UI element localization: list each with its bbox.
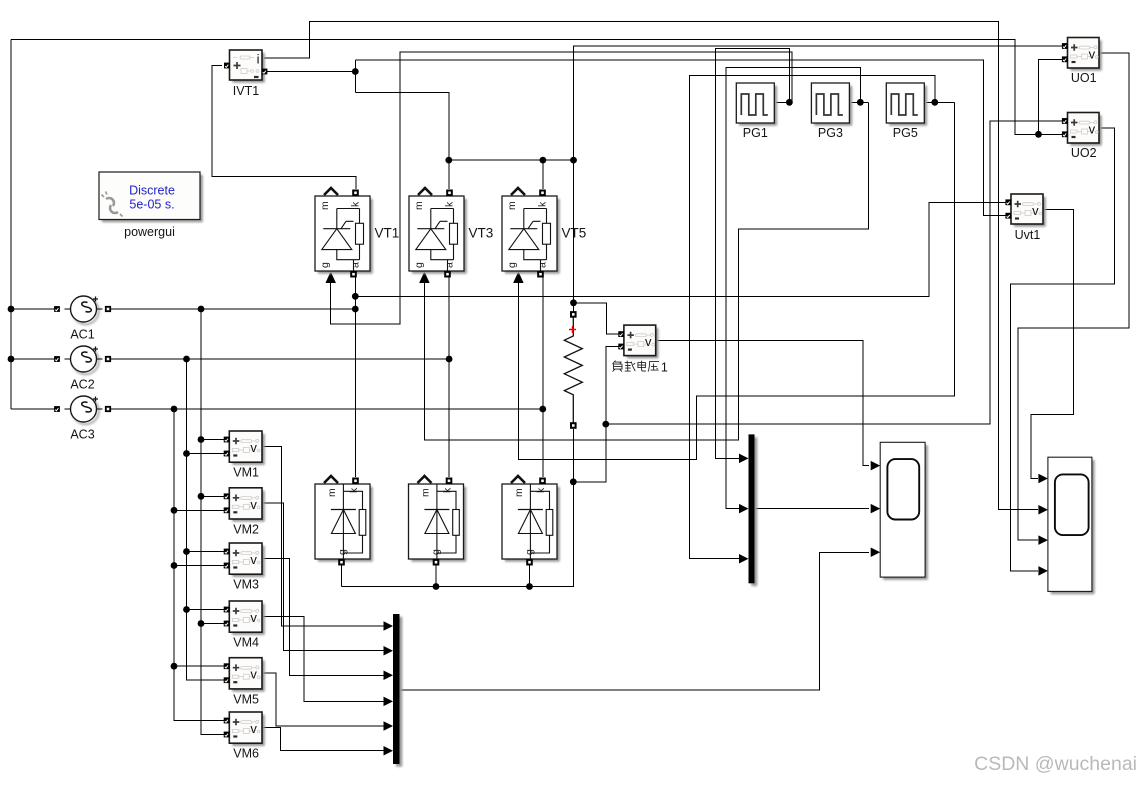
svg-text:g: g	[337, 549, 349, 555]
svg-text:5e-05 s.: 5e-05 s.	[129, 198, 174, 212]
mux2 input arrow 5	[384, 721, 394, 731]
wire phase C tap VM5+	[174, 665, 224, 667]
wire VM5 to Mux2	[262, 673, 385, 726]
scope1 input arrow 3	[871, 548, 881, 558]
svg-text:v: v	[250, 721, 257, 736]
node cath-VT3k	[445, 157, 452, 164]
scope1 input arrow 2	[871, 504, 881, 513]
node neutral-AC2	[8, 356, 15, 363]
wire phase C tap VM3-	[174, 565, 224, 567]
svg-text:m: m	[413, 201, 425, 210]
voltage measurement VM3	[224, 543, 265, 577]
wire phase A vertical VT1.a to VT4.k	[354, 278, 356, 478]
svg-text:VM6: VM6	[233, 747, 259, 761]
wire anode stub VT4	[341, 563, 343, 587]
wire cathode bus VT5.k drop	[542, 160, 544, 189]
node cath-VT5k	[540, 157, 547, 164]
wire cathode bus lower run	[355, 92, 449, 160]
mux1 input arrow 1	[739, 454, 749, 464]
wire cathode bus to Uvt1-	[355, 60, 1007, 216]
scope2 input arrow 4	[1038, 566, 1048, 576]
voltage measurement VM5	[224, 658, 265, 692]
node load-minus	[570, 478, 577, 485]
wire cathode to UO1+	[574, 46, 1066, 160]
wire IVT1 i signal to Scope2	[264, 22, 1038, 510]
wire phase A tap VM1+	[201, 439, 224, 441]
svg-text:1: 1	[661, 360, 668, 374]
wire PG1 to VT1 gate	[331, 52, 792, 324]
svg-text:v: v	[645, 334, 652, 349]
voltage measurement UO2	[1062, 113, 1102, 146]
svg-text:Uvt1: Uvt1	[1015, 228, 1041, 242]
node C-VM5	[171, 663, 178, 670]
node A-VM1	[198, 436, 205, 443]
thyristor VT3	[409, 196, 467, 274]
node A-VT1a-right	[352, 293, 359, 300]
node neutral-AC1	[8, 306, 15, 313]
mux Mux2	[393, 614, 402, 767]
thyristor VT4	[315, 484, 373, 562]
wire load voltage + tap	[574, 303, 622, 334]
thyristor VT5	[502, 196, 560, 274]
svg-text:VT1: VT1	[375, 226, 400, 241]
wire VM4 to Mux2	[262, 616, 385, 701]
load resistor + port	[570, 311, 577, 318]
a port VT5	[537, 271, 544, 278]
wire phase C tap VM2-	[174, 509, 224, 511]
wire PG5 to VT5 gate	[518, 102, 954, 459]
svg-text:VM3: VM3	[233, 578, 259, 592]
gate arrow VT3	[419, 272, 430, 284]
svg-text:g: g	[524, 549, 536, 555]
svg-text:m: m	[506, 201, 518, 210]
wire VM6 to Mux2	[262, 727, 385, 750]
mux2 input arrow 4	[384, 697, 394, 707]
unconnected m-port marker VT5	[511, 188, 525, 195]
g port VT6	[433, 559, 440, 566]
scope Scope1	[880, 442, 928, 580]
wire VM1 to Mux2	[262, 446, 385, 626]
svg-text:a: a	[444, 262, 456, 268]
AC voltage source AC1	[54, 296, 111, 324]
gate arrow VT1	[325, 272, 336, 284]
node B-VM4	[183, 606, 190, 613]
scope2 input arrow 2	[1038, 505, 1048, 515]
svg-text:VM1: VM1	[233, 466, 259, 480]
node A-busdrop	[198, 306, 205, 313]
node cath-load	[570, 157, 577, 164]
node PG5-out	[931, 99, 938, 106]
svg-text:m: m	[513, 488, 525, 497]
wire phase B tap VM3+	[187, 551, 225, 553]
unconnected m-port marker VT4	[324, 476, 338, 483]
thyristor VT6	[409, 484, 467, 562]
node B-VM1	[183, 450, 190, 457]
thyristor VT2	[502, 484, 560, 562]
svg-text:g: g	[430, 549, 442, 555]
k port VT3	[446, 190, 453, 197]
node B-VM3	[183, 548, 190, 555]
mux1 input arrow 3	[739, 554, 749, 564]
unconnected m-port marker VT1	[324, 188, 338, 195]
mux2 input arrow 2	[384, 646, 394, 656]
wire load voltage - riser	[606, 347, 621, 425]
node A-VM4	[198, 620, 205, 627]
svg-text:PG1: PG1	[743, 126, 768, 140]
svg-text:k: k	[350, 201, 362, 207]
wire PG1 to Mux1 input1	[716, 49, 790, 459]
svg-text:PG5: PG5	[893, 126, 918, 140]
wire Mux2 output to Scope1	[400, 552, 870, 690]
pulse generator PG1	[736, 83, 777, 126]
node C-VT5a	[539, 406, 546, 413]
wire neutral to AC2 left	[11, 358, 57, 360]
mux2 input arrow 1	[384, 621, 394, 631]
voltage measurement UO1	[1062, 38, 1102, 71]
load resistor RL	[564, 314, 582, 425]
wire phase C from AC3	[108, 408, 543, 410]
wire IVT1 input from VT1 cathode	[212, 66, 356, 190]
wire load- down	[572, 429, 574, 482]
wire phase C bus down to VM column	[174, 409, 224, 721]
AC voltage source AC2	[54, 346, 111, 374]
svg-text:VM5: VM5	[233, 692, 259, 706]
svg-text:Discrete: Discrete	[129, 184, 175, 198]
svg-text:i: i	[257, 52, 260, 67]
svg-text:g: g	[413, 262, 425, 268]
wire phase B tap VM4+	[187, 609, 225, 611]
node C-VM2	[171, 507, 178, 514]
scope Scope2	[1048, 457, 1095, 594]
wire PG3 output stub	[851, 101, 869, 103]
load resistor + polarity mark	[569, 326, 576, 333]
k port VT4	[352, 478, 359, 485]
wire phase B vertical VT3.a to VT6.k	[448, 278, 450, 478]
svg-text:k: k	[535, 487, 547, 493]
wire load voltage output to Scope1	[656, 340, 869, 465]
svg-text:CSDN @wuchenai: CSDN @wuchenai	[974, 753, 1137, 775]
svg-text:v: v	[250, 497, 257, 512]
svg-text:v: v	[250, 552, 257, 567]
svg-text:v: v	[250, 610, 257, 625]
wire phase A tap VM4-	[201, 623, 224, 625]
svg-text:k: k	[442, 487, 454, 493]
voltage measurement Uvt1	[1005, 194, 1045, 227]
scope2 input arrow 1	[1038, 474, 1048, 484]
voltage measurement VM1	[224, 431, 265, 465]
svg-text:k: k	[537, 201, 549, 207]
svg-text:VM4: VM4	[233, 636, 259, 650]
wire UO2 output to Scope2	[1010, 128, 1114, 571]
k port VT6	[446, 478, 453, 485]
svg-text:m: m	[326, 488, 338, 497]
voltage measurement VM2	[224, 488, 265, 522]
svg-text:v: v	[250, 440, 257, 455]
powergui block	[99, 172, 203, 222]
wire phase B tap VM1-	[187, 453, 225, 455]
wire PG5 output stub	[926, 101, 955, 103]
pulse generator PG5	[886, 83, 927, 126]
svg-text:a: a	[537, 262, 549, 268]
wire cathode bus VT3.k drop	[448, 160, 450, 189]
wire IVT1 output stub	[266, 71, 355, 73]
wire cathode down to load+	[573, 160, 575, 303]
node C-busdrop	[171, 406, 178, 413]
svg-text:m: m	[420, 488, 432, 497]
mux Mux1	[749, 434, 758, 586]
wire phase A tap VM2+	[201, 495, 224, 497]
unconnected m-port marker VT6	[418, 476, 432, 483]
node anode-VT2	[526, 583, 533, 590]
node B-VT3a	[446, 356, 453, 363]
wire cathode bus vertical at IVT1 node	[354, 60, 356, 92]
wire Uvt1 output to Scope2	[1031, 209, 1074, 478]
k port VT1	[352, 190, 359, 197]
wire phase B bus down to VM column	[187, 359, 225, 680]
node A-VT1a	[352, 306, 359, 313]
mux1 input arrow 2	[739, 504, 749, 513]
wire PG3 to VT3 gate	[424, 102, 868, 440]
svg-text:AC3: AC3	[70, 428, 94, 442]
node PG1-out	[786, 99, 793, 106]
svg-text:UO2: UO2	[1071, 146, 1097, 160]
node load-top	[570, 299, 577, 306]
node A-VM2	[198, 493, 205, 500]
voltage measurement VM4	[224, 601, 265, 635]
svg-text:k: k	[444, 201, 456, 207]
voltage measurement VM6	[224, 712, 265, 746]
node UO-minus	[1035, 131, 1042, 138]
svg-text:PG3: PG3	[818, 126, 843, 140]
wire UO1 output to Scope2	[1018, 53, 1129, 540]
node C-VM3	[171, 562, 178, 569]
mux2 input arrow 3	[384, 671, 394, 681]
scope2 input arrow 3	[1038, 535, 1048, 545]
thyristor VT1	[315, 196, 373, 274]
pulse generator PG3	[811, 83, 852, 126]
svg-text:AC2: AC2	[70, 378, 94, 392]
wire phase A bus down to VM column	[201, 309, 224, 735]
voltage measurement load voltage meter	[618, 325, 658, 358]
wire phase C vertical VT5.a to VT2.k	[542, 278, 544, 478]
unconnected m-port marker VT3	[418, 188, 432, 195]
node PG3-out	[857, 99, 864, 106]
wire PG5 to Mux1 input3	[690, 76, 935, 559]
wire neutral bus left vertical	[10, 40, 12, 410]
scope1 input arrow 1	[871, 461, 881, 471]
current measurement IVT1	[224, 50, 267, 83]
wire load+ stub	[573, 303, 575, 315]
node anode-VT6	[433, 583, 440, 590]
svg-text:v: v	[1032, 203, 1039, 218]
unconnected m-port marker VT2	[511, 476, 525, 483]
load resistor - port	[570, 422, 577, 429]
wire phase B from AC2	[108, 358, 449, 360]
wire anode bus	[342, 482, 574, 587]
wire phase A from AC1	[108, 308, 355, 310]
svg-text:VT5: VT5	[562, 226, 587, 241]
wire VM2 to Mux2	[262, 503, 385, 651]
svg-text:g: g	[506, 262, 518, 268]
wire cathode bus horizontal	[449, 159, 574, 161]
gate arrow VT5	[513, 272, 524, 284]
mux2 input arrow 6	[384, 746, 394, 756]
g port VT2	[526, 559, 533, 566]
svg-text:UO1: UO1	[1071, 71, 1097, 85]
svg-text:AC1: AC1	[70, 328, 94, 342]
a port VT3	[444, 271, 451, 278]
wire anode stub VT2	[529, 563, 531, 587]
svg-text:m: m	[319, 201, 331, 210]
wire PG3 to Mux1 input2	[726, 67, 860, 508]
AC voltage source AC3	[54, 396, 111, 424]
k port VT5	[539, 190, 546, 197]
g port VT4	[338, 559, 345, 566]
svg-text:a: a	[350, 262, 362, 268]
wire neutral to AC3 left	[11, 408, 57, 410]
svg-text:powergui: powergui	[124, 225, 175, 239]
svg-text:v: v	[1089, 122, 1096, 137]
wire neutral bus top horizontal	[11, 40, 1065, 135]
node loadV-minus	[602, 421, 609, 428]
node IVT1-out	[352, 68, 359, 75]
svg-text:v: v	[1089, 47, 1096, 62]
wire anode stub VT6	[435, 563, 437, 587]
node B-busdrop	[183, 356, 190, 363]
svg-text:v: v	[250, 667, 257, 682]
wire load- to UO2+	[606, 121, 1065, 424]
a port VT1	[350, 271, 357, 278]
label load voltage meter (负载电压1)	[613, 361, 623, 372]
wire PG1 output stub	[776, 101, 792, 103]
k port VT2	[539, 478, 546, 485]
wire neutral branch to UO1-minus	[1039, 59, 1066, 134]
svg-text:IVT1: IVT1	[233, 84, 259, 98]
wire phase A to Uvt1+	[355, 202, 1007, 296]
svg-text:VT3: VT3	[469, 226, 494, 241]
wire load- jog	[573, 424, 606, 482]
svg-text:k: k	[348, 487, 360, 493]
wire Mux1 output to Scope1	[755, 508, 870, 510]
wire neutral to AC1 left	[11, 308, 57, 310]
svg-text:VM2: VM2	[233, 523, 259, 537]
svg-text:g: g	[319, 262, 331, 268]
wire VM3 to Mux2	[262, 558, 385, 675]
